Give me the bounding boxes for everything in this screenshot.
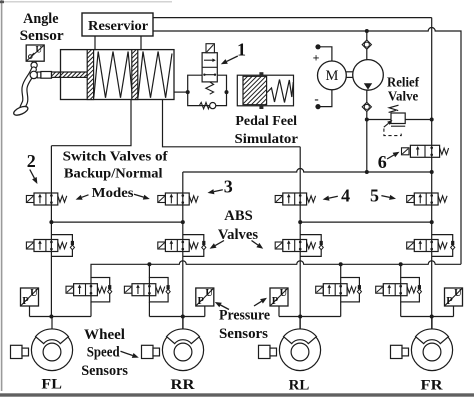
wire release valve RR outlet [148,302,150,317]
node wheel FL [49,315,53,319]
svg-text:Pressure: Pressure [219,308,271,324]
wire master cylinder chamber2 to RL column [163,100,301,147]
ABS release valve FR box [401,278,420,302]
valve 6 return spring [440,148,449,154]
valve body [34,193,58,205]
svg-text:Relief: Relief [387,74,419,89]
node return RL [339,262,343,266]
svg-text:FR: FR [421,377,443,393]
svg-text:Switch Valves of: Switch Valves of [63,149,168,164]
pedal foot pad [12,105,29,117]
wire FL-RR bus [51,221,182,223]
check valve bypass RR [202,241,206,250]
return bus wire [91,261,461,278]
arrow label 4 [323,196,338,201]
push rod end fitting [41,72,52,79]
wire check to manifold [366,112,368,173]
valve body [383,284,407,296]
wire return bus to release valve RR [148,264,150,277]
wire wheel junction FL [30,316,92,318]
reservoir tank [82,13,153,36]
svg-text:U: U [280,288,288,299]
valve body [165,193,189,205]
valve body [74,284,98,296]
valve 1 solenoid actuator [206,44,214,53]
valve U1 (simulator isolation) body [202,53,217,82]
return spring [307,196,316,202]
svg-text:P: P [446,296,453,307]
release check valve RR [166,285,170,294]
pump manifold wire [183,169,432,172]
svg-text:Valve: Valve [388,89,418,104]
wire RL column [299,147,301,330]
valve 6 body [410,145,439,157]
svg-text:U: U [205,288,213,299]
valve 6 solenoid actuator [402,148,410,155]
release check valve RL [357,285,361,294]
solenoid actuator [26,196,34,203]
node pump suction [365,29,369,33]
node bus RL [298,220,302,224]
node bus FR [430,220,434,224]
node relief right [430,118,434,122]
valve body [165,240,189,252]
solenoid actuator [407,242,415,249]
valve body [414,193,438,205]
motor - terminal [315,104,320,109]
arrow modes to valve 3 [134,194,150,199]
svg-text:-: - [314,91,318,106]
arrow speed sensor [121,351,139,358]
pedal clevis joint [30,71,41,78]
svg-text:U: U [36,44,43,54]
node relief left [365,118,369,122]
relief valve RV1 [391,113,405,124]
valve body [323,284,347,296]
master cylinder body [61,50,175,100]
check valve bypass RL [319,241,323,250]
wheel FL [31,329,72,370]
ABS apply valve RL bypass box [300,235,321,257]
wire pressure sensor RL [278,306,280,317]
pressure sensor RR [196,288,214,306]
motor M1 [318,61,347,90]
node wheel RL [298,315,302,319]
wire relief to FR column [405,119,432,121]
svg-text:Sensor: Sensor [20,28,64,44]
wire master cylinder chamber1 to FL column [51,100,131,146]
arrow modes to valve 2 [76,195,89,200]
solenoid actuator [376,286,384,293]
svg-text:Backup/Normal: Backup/Normal [64,167,163,182]
svg-text:6: 6 [378,152,387,172]
svg-text:FL: FL [41,377,62,393]
node valve1 right [225,90,229,94]
svg-text:Modes: Modes [92,186,134,201]
check valve CV1 (suction) [362,40,371,49]
svg-text:Sensors: Sensors [219,326,268,342]
wheel speed sensor FL [11,345,29,358]
pressure sensor RL [270,288,288,306]
svg-text:U: U [454,288,462,299]
return spring [189,242,198,248]
wire wheel junction RR [149,316,204,318]
master cylinder piston 2 (hatched) [82,50,193,100]
wheel speed sensor RL [259,345,277,358]
arrow pressure to RL sensor [254,298,267,306]
solenoid actuator [158,196,166,203]
valve body [414,240,438,252]
svg-text:Simulator: Simulator [235,132,298,147]
wire wheel junction RL [279,316,341,318]
motor-pump coupling [346,71,352,73]
svg-text:Pedal Feel: Pedal Feel [235,114,297,129]
wire motor + to motor [321,47,332,61]
wire wheel junction FR [401,316,454,318]
wire reservoir return line [153,28,461,265]
wire release valve RL outlet [340,302,342,317]
pedal pivot [31,61,37,68]
return spring [189,196,198,202]
svg-text:P: P [22,296,29,307]
valve 1 spring [206,82,214,94]
return spring [407,287,416,293]
wire FL column [50,146,52,317]
valve body [132,284,156,296]
wire master cylinder to simulator valve [174,91,188,93]
arrow label 2 [30,170,38,185]
motor + terminal [315,44,320,49]
check valve CV2 (discharge) [362,102,371,111]
wheel RR [162,329,203,370]
solenoid actuator [275,196,283,203]
svg-text:Wheel: Wheel [84,327,125,343]
master cylinder spring 2 [138,52,172,98]
return spring [58,196,67,202]
solenoid actuator [275,242,283,249]
master cylinder piston 1 (hatched) [37,50,149,100]
pump P1 [353,60,384,91]
node wheel RR [181,315,185,319]
return spring [156,287,165,293]
arrow pressure to RR sensor [215,302,229,310]
wire reservoir feed to master cylinder chamber 1 [94,36,96,50]
brake pedal arm [23,70,34,108]
brake caliper RR [167,329,200,344]
wire motor - to motor [321,90,332,107]
wire FR supply column [431,18,433,330]
wire release valve FL outlet [90,302,92,317]
svg-text:M: M [325,68,338,84]
svg-text:P: P [272,296,279,307]
angle sensor box [26,45,44,61]
check valve bypass FL [70,241,74,250]
wire RL-FR bus [300,221,432,223]
solenoid actuator [316,286,324,293]
solenoid actuator [407,196,415,203]
master cylinder spring 1 [94,52,132,98]
solenoid actuator [158,242,166,249]
svg-text:Angle: Angle [23,11,59,27]
release check valve FL [108,285,112,294]
wire check to pump [366,49,368,60]
wheel FR [411,329,452,370]
svg-text:P: P [197,296,204,307]
brake caliper FR [416,329,449,344]
solenoid actuator [124,286,131,293]
wire RR column [182,172,184,330]
arrow ABS to RR apply valve [210,241,224,249]
svg-text:5: 5 [370,185,379,205]
release check valve FR [417,285,421,294]
svg-text:4: 4 [341,185,350,205]
svg-text:U: U [30,288,38,299]
node wheel FR [430,315,434,319]
svg-text:1: 1 [237,39,246,59]
brake caliper RL [284,329,317,344]
check valve bypass FR [451,241,455,250]
ABS release valve FL box [91,278,110,302]
wire reservoir feed to master cylinder chamber 2 [140,36,142,50]
pressure sensor FR [445,288,463,306]
ABS release valve RL box [341,278,360,302]
push rod (hatched) [46,72,98,77]
arrow ABS to RL apply valve [252,241,264,249]
ABS apply valve FL bypass box [51,235,72,257]
node return FR [399,262,403,266]
solenoid actuator [26,242,34,249]
wire pressure sensor FR [453,306,455,317]
pedal feel simulator cylinder [237,75,293,106]
return spring [97,287,106,293]
pressure sensor FL [21,288,39,306]
svg-text:3: 3 [224,177,233,197]
svg-text:RL: RL [289,378,310,394]
svg-text:Sensors: Sensors [81,363,128,379]
node bus FL [49,220,53,224]
arrow label 1 [221,56,238,64]
wire pressure sensor FL [29,306,31,317]
simulator spring [267,80,293,103]
relief valve pilot line (dashed) [384,129,401,136]
wire return bus to release valve RL [340,264,342,277]
node bus RR [181,220,185,224]
arrow label 5 [381,195,396,200]
brake caliper FL [36,329,69,344]
valve body [283,193,307,205]
ABS apply valve FR bypass box [432,235,453,257]
node valve1 left [186,90,190,94]
valve body [283,240,307,252]
arrow label 6 [387,152,400,159]
return spring [307,242,316,248]
simulator pin top [259,72,263,76]
ABS release valve RR box [149,278,168,302]
svg-text:ABS: ABS [224,208,252,224]
check valve bypass of valve 1 [199,102,209,108]
wire pressure sensor RR [204,306,206,317]
wire return bus to release valve FR [400,264,402,277]
return spring [438,242,447,248]
svg-text:Reservior: Reservior [88,19,148,34]
arrow label 3 [208,189,223,194]
wire to wheel FL [51,317,53,330]
wheel speed sensor RR [142,345,160,358]
wire to wheel FR [431,317,433,330]
return spring [438,196,447,202]
wire reservoir to FR supply column [153,17,432,19]
svg-text:RR: RR [171,377,195,393]
ABS apply valve RR bypass box [183,235,204,257]
wire release valve FR outlet [400,302,402,317]
wire pump suction [366,31,368,40]
wire to relief valve [367,119,393,121]
wheel RL [279,329,320,370]
solenoid actuator [66,286,74,293]
svg-text:Speed: Speed [87,344,120,360]
simulator pin bottom [259,105,263,109]
wire to wheel RR [182,317,184,330]
wire to wheel RL [299,317,301,330]
wheel speed sensor FR [391,345,409,358]
simulator valve loop box [188,75,227,105]
return spring [58,242,67,248]
return spring [347,287,356,293]
simulator piston (hatched) [215,76,303,104]
wire pump outlet [366,90,368,102]
svg-text:2: 2 [27,151,36,171]
node return RR [147,262,151,266]
svg-text:+: + [313,51,320,65]
node manifold FR [430,170,434,174]
node manifold pump [365,170,369,174]
valve body [34,240,58,252]
